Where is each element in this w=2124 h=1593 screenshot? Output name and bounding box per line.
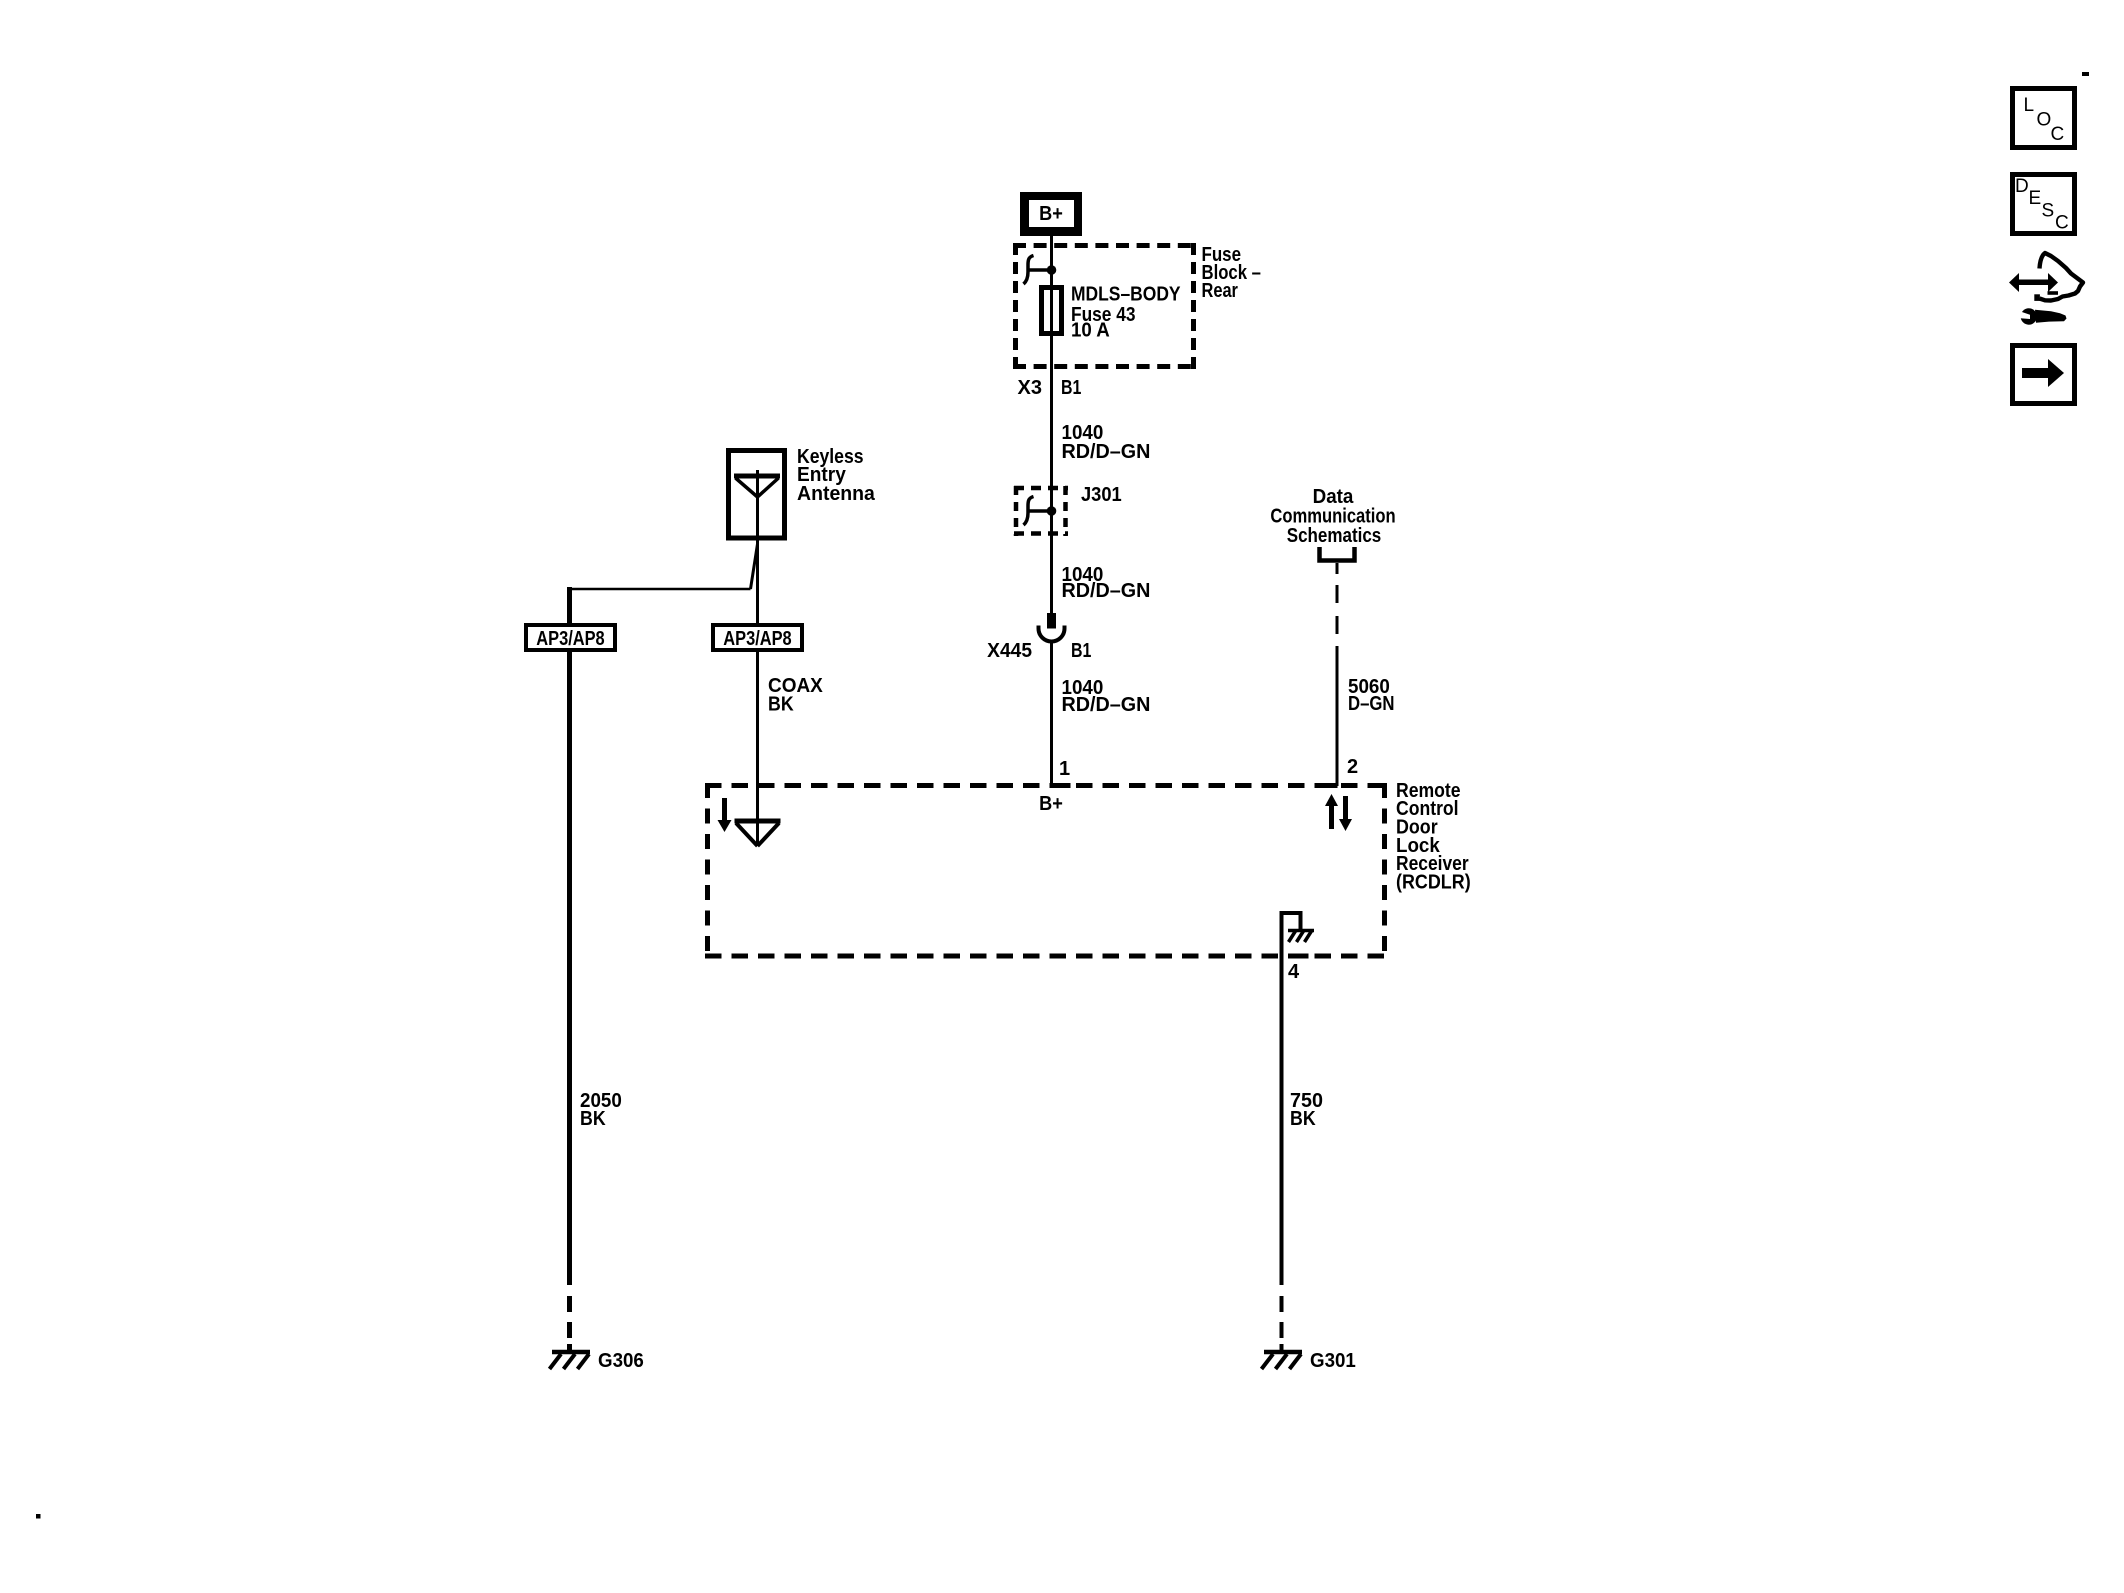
- svg-text:J301: J301: [1081, 484, 1122, 506]
- svg-text:1: 1: [1059, 758, 1070, 780]
- svg-text:B+: B+: [1039, 203, 1063, 225]
- svg-text:BK: BK: [768, 694, 794, 716]
- svg-text:BK: BK: [580, 1108, 606, 1130]
- svg-text:S: S: [2042, 201, 2055, 222]
- svg-text:O: O: [2037, 110, 2052, 131]
- svg-text:RD/D–GN: RD/D–GN: [1062, 441, 1151, 463]
- svg-text:BK: BK: [1290, 1108, 1316, 1130]
- svg-text:AP3/AP8: AP3/AP8: [536, 626, 604, 649]
- svg-text:C: C: [2051, 124, 2065, 145]
- svg-text:RD/D–GN: RD/D–GN: [1062, 580, 1151, 602]
- svg-text:G301: G301: [1310, 1349, 1356, 1372]
- svg-text:4: 4: [1288, 961, 1300, 983]
- svg-text:G306: G306: [598, 1349, 644, 1372]
- svg-text:B1: B1: [1071, 639, 1091, 661]
- svg-text:Rear: Rear: [1202, 278, 1238, 301]
- svg-text:L: L: [2024, 95, 2035, 116]
- svg-text:D–GN: D–GN: [1348, 692, 1395, 715]
- svg-text:(RCDLR): (RCDLR): [1396, 872, 1471, 894]
- svg-text:B1: B1: [1061, 376, 1081, 398]
- svg-text:D: D: [2015, 176, 2029, 197]
- svg-text:E: E: [2029, 188, 2042, 209]
- svg-text:RD/D–GN: RD/D–GN: [1062, 694, 1151, 716]
- svg-text:B+: B+: [1039, 793, 1063, 815]
- svg-text:X3: X3: [1018, 377, 1042, 399]
- svg-text:C: C: [2055, 213, 2069, 234]
- svg-text:MDLS–BODY: MDLS–BODY: [1071, 282, 1181, 304]
- svg-text:10 A: 10 A: [1071, 319, 1110, 342]
- svg-text:Schematics: Schematics: [1287, 524, 1382, 547]
- svg-text:X445: X445: [987, 640, 1032, 662]
- svg-text:AP3/AP8: AP3/AP8: [723, 626, 791, 649]
- svg-text:2: 2: [1347, 756, 1358, 778]
- svg-text:Antenna: Antenna: [797, 483, 876, 505]
